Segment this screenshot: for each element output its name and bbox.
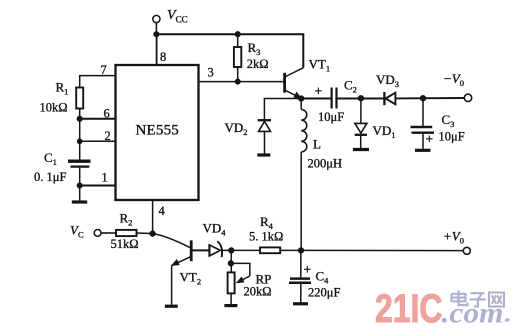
svg-text:10μF: 10μF (318, 110, 344, 124)
node VD3/C3 junction (420, 95, 426, 101)
capacitor C3 10uF polarized (411, 98, 465, 149)
ground for C3 (415, 149, 431, 152)
wire pin 3 to VT1 base (199, 81, 284, 83)
wire pin 6 (80, 118, 116, 120)
wire emitter junction to C2 (301, 98, 331, 100)
svg-text:51kΩ: 51kΩ (111, 237, 139, 251)
wire pin 1 (80, 185, 116, 187)
svg-text:220μF: 220μF (308, 286, 340, 300)
svg-text:+: + (426, 132, 434, 147)
IC U1 NE555 timer body (116, 65, 199, 200)
resistor R3 (234, 34, 241, 81)
wire VD4 to R4 (221, 249, 260, 251)
diode VD1 (355, 98, 396, 148)
wire +Vo rail (301, 249, 463, 251)
svg-text:4: 4 (159, 204, 166, 218)
wire junction column pin6 to pin2 (79, 119, 81, 142)
svg-text:10kΩ: 10kΩ (40, 100, 68, 114)
diode VD3 (376, 72, 399, 105)
svg-text:20kΩ: 20kΩ (244, 285, 272, 299)
node VCC rail junction (154, 31, 160, 37)
capacitor C1 0.1uF (34, 150, 91, 186)
resistor R1 (40, 76, 116, 119)
wire VD3 to -Vo (395, 97, 464, 99)
wire C1 junction down to ground (79, 186, 81, 201)
wire top VCC rail (156, 34, 303, 68)
svg-text:2: 2 (105, 129, 111, 143)
wire VD4 junction down to RP (230, 250, 232, 272)
wire VCC terminal to rail (155, 23, 157, 35)
logo .com watermark (442, 297, 510, 330)
wire VD2 branch from emitter junction (264, 99, 301, 120)
ground for C4 (293, 302, 308, 305)
svg-text:NE555: NE555 (136, 123, 180, 139)
node RP wiper tie junction (228, 260, 234, 266)
diode VD2 (225, 120, 272, 154)
node L/R4/C4 junction (298, 247, 304, 253)
svg-text:L: L (313, 137, 321, 152)
wire L bottom to +Vo rail (300, 152, 302, 251)
wire C2 to VD3 (337, 98, 385, 100)
terminal -Vo (443, 71, 472, 102)
svg-text:5. 1kΩ: 5. 1kΩ (249, 230, 283, 244)
wire VT2 emitter to ground (171, 266, 173, 305)
wire VC to R2 (101, 232, 116, 234)
logo CJK dian zi wang watermark (452, 291, 505, 307)
svg-text:+: + (304, 262, 312, 277)
inductor L 200uH (301, 99, 342, 171)
wire pin 8 (156, 34, 158, 65)
svg-text:3: 3 (208, 66, 214, 80)
transistor VT1 (285, 57, 330, 99)
node C2/VD1 junction (358, 95, 364, 101)
wire R4 to +Vo rail junction (280, 249, 301, 251)
ground for VD1 (353, 148, 369, 151)
diode VD4 (203, 221, 227, 258)
capacitor C4 220uF polarized (289, 250, 340, 302)
wire pin2 junction down to C1 (79, 141, 81, 160)
svg-text:0. 1μF: 0. 1μF (34, 170, 66, 184)
svg-text:6: 6 (104, 107, 110, 121)
terminal VC (70, 223, 101, 240)
transistor VT2 (171, 240, 209, 286)
resistor R2 (111, 211, 153, 252)
wire pin 2 (80, 140, 116, 142)
ground for VD2 (257, 153, 270, 156)
node R1/pin6 junction (77, 116, 83, 122)
terminal +Vo (443, 229, 470, 255)
svg-text:8: 8 (160, 50, 166, 64)
logo 21IC watermark (375, 287, 443, 331)
node pin4/R2/VT2 base junction (150, 231, 156, 237)
svg-text:200μH: 200μH (308, 157, 342, 171)
terminal VCC (153, 8, 188, 25)
ground for RP (224, 304, 237, 307)
ground for VT2 (165, 305, 178, 308)
svg-text:7: 7 (101, 63, 107, 77)
wire junction to VT2 base (153, 234, 190, 248)
node VD4/RP junction (228, 247, 234, 253)
svg-text:21IC: 21IC (375, 287, 443, 331)
capacitor C2 10uF polarized (315, 78, 357, 125)
svg-text:2kΩ: 2kΩ (247, 57, 269, 71)
node pin2 junction (77, 139, 82, 144)
ground for C1 (72, 200, 87, 203)
svg-text:+: + (315, 84, 323, 99)
svg-text:10μF: 10μF (439, 130, 465, 144)
resistor R4 (249, 214, 283, 253)
wire pin 4 (152, 200, 154, 234)
node C1/pin1 junction (77, 183, 83, 189)
potentiometer RP 20k (228, 263, 272, 304)
node pin3 / R3 bottom junction (235, 79, 241, 85)
node VT1 emitter junction (298, 96, 304, 102)
node rail / R3 top junction (235, 31, 241, 37)
svg-text:1: 1 (102, 171, 108, 185)
